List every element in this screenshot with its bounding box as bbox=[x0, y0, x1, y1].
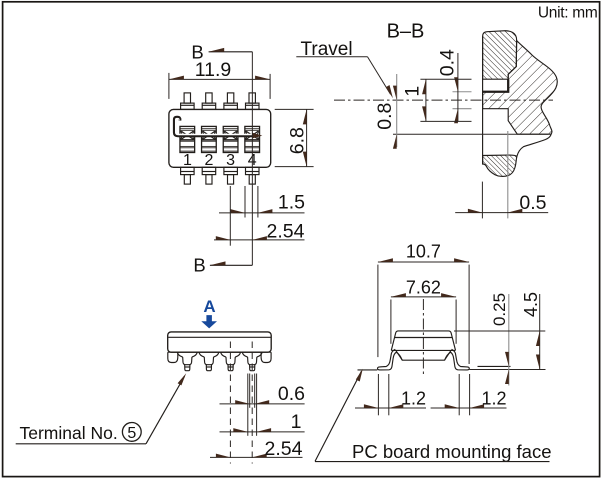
svg-text:5: 5 bbox=[127, 425, 136, 442]
terminal label leader bbox=[16, 373, 187, 444]
section arrow B bottom bbox=[193, 254, 252, 275]
svg-text:10.7: 10.7 bbox=[406, 242, 441, 262]
pin 3 top bbox=[224, 93, 238, 110]
svg-text:Unit: mm: Unit: mm bbox=[538, 4, 598, 21]
dimension 0.5 bbox=[455, 131, 548, 218]
terminal 4 centerline bbox=[251, 342, 253, 464]
dimension 1.2 right bbox=[431, 374, 507, 415]
terminal tip 2 bbox=[206, 365, 211, 371]
standoff line bbox=[478, 365, 511, 367]
svg-text:4.5: 4.5 bbox=[521, 292, 541, 317]
dimension 11.9 bbox=[169, 59, 270, 99]
switch slot 3 bbox=[223, 126, 238, 152]
step line bbox=[393, 133, 549, 135]
mounting face line left bbox=[358, 369, 378, 371]
wire arrowhead bbox=[252, 133, 262, 139]
dimension 0.8 bbox=[374, 74, 397, 149]
svg-text:Terminal No.: Terminal No. bbox=[20, 423, 118, 443]
switch slot 4 bbox=[245, 126, 260, 152]
pin 2 bottom bbox=[202, 167, 216, 184]
svg-text:1: 1 bbox=[401, 86, 423, 97]
dimension 0.6 bbox=[220, 374, 306, 408]
terminal foot section (hatched) bbox=[483, 155, 517, 176]
svg-text:3: 3 bbox=[226, 152, 235, 169]
contact strip (thick lines) bbox=[483, 79, 509, 92]
right gull-wing leg bbox=[445, 349, 470, 370]
svg-text:2.54: 2.54 bbox=[267, 220, 305, 242]
centerline bbox=[334, 99, 553, 101]
dimension 0.4 bbox=[436, 49, 471, 123]
svg-text:0.4: 0.4 bbox=[436, 49, 458, 76]
pin 1 top bbox=[181, 93, 195, 110]
dimension 1 front bbox=[220, 374, 305, 436]
terminal tip 1 bbox=[185, 365, 190, 371]
view arrow A bbox=[201, 315, 217, 328]
terminal 3 centerline bbox=[229, 342, 231, 464]
pin 4 top bbox=[246, 93, 260, 110]
dimension 1.5 bbox=[219, 186, 305, 218]
left leg inner curve bbox=[396, 352, 402, 360]
svg-text:1: 1 bbox=[291, 411, 302, 433]
mounting face line right bbox=[469, 369, 545, 371]
pin 4 bottom bbox=[246, 167, 260, 184]
dimension 0.25 bbox=[490, 293, 509, 386]
svg-text:11.9: 11.9 bbox=[195, 59, 232, 81]
svg-text:B–B: B–B bbox=[387, 21, 425, 43]
dimension 1.2 left bbox=[355, 374, 426, 415]
svg-text:B: B bbox=[193, 254, 205, 275]
svg-text:1.2: 1.2 bbox=[481, 388, 506, 408]
end body lip line bbox=[395, 337, 452, 339]
centerline vertical bbox=[422, 299, 424, 376]
skirt right block bbox=[261, 352, 271, 362]
svg-text:A: A bbox=[203, 297, 215, 316]
svg-text:7.62: 7.62 bbox=[406, 278, 441, 298]
left gull-wing leg bbox=[378, 349, 397, 370]
terminal cup 1 bbox=[177, 352, 197, 364]
svg-text:1.5: 1.5 bbox=[278, 191, 305, 213]
section arrow B top bbox=[191, 42, 252, 63]
pin 2 top bbox=[202, 93, 216, 110]
terminal cup 4 bbox=[242, 352, 262, 364]
svg-text:0.5: 0.5 bbox=[519, 192, 546, 214]
terminal cup 3 bbox=[221, 352, 241, 364]
section left edge bbox=[482, 36, 484, 164]
svg-text:0.25: 0.25 bbox=[490, 293, 509, 326]
dimension 4.5 bbox=[454, 292, 545, 370]
travel label bbox=[296, 39, 393, 98]
terminal tip 4 bbox=[250, 365, 255, 371]
pin 1 bottom bbox=[181, 167, 195, 184]
dimension 7.62 bbox=[391, 278, 456, 344]
svg-text:6.8: 6.8 bbox=[287, 127, 309, 154]
dimension 2.54 front bbox=[210, 438, 303, 460]
end body seam bbox=[391, 349, 455, 351]
switch body (top view) bbox=[169, 109, 271, 167]
switch slot 1 bbox=[180, 126, 195, 152]
terminal tip 3 bbox=[228, 365, 233, 371]
svg-text:PC board mounting face: PC board mounting face bbox=[352, 441, 552, 462]
front body bottom edge bbox=[168, 351, 272, 353]
switch slot 2 bbox=[202, 126, 217, 152]
svg-text:1: 1 bbox=[183, 152, 192, 169]
svg-text:1.2: 1.2 bbox=[401, 388, 426, 408]
end body lower bbox=[396, 350, 451, 360]
dimension 2.54 top bbox=[214, 186, 305, 246]
front body bbox=[168, 332, 272, 352]
section line B-B bbox=[251, 52, 253, 265]
svg-text:2.54: 2.54 bbox=[265, 438, 303, 460]
front body lip line bbox=[168, 336, 271, 338]
dimension 10.7 bbox=[378, 242, 469, 364]
break line below step bbox=[517, 134, 551, 156]
slide wire with hook bbox=[175, 117, 256, 135]
end body upper bbox=[391, 331, 455, 350]
knob section (hatched) bbox=[483, 31, 517, 79]
dimension 6.8 bbox=[275, 109, 314, 166]
skirt left block bbox=[168, 352, 178, 362]
pin 3 bottom bbox=[224, 167, 238, 184]
terminal cup 2 bbox=[199, 352, 219, 364]
svg-text:2: 2 bbox=[205, 152, 214, 169]
housing section (hatched) bbox=[483, 41, 558, 135]
mounting face label bbox=[315, 369, 552, 462]
dimension 1 travel bbox=[401, 79, 471, 121]
svg-text:0.8: 0.8 bbox=[374, 103, 396, 130]
svg-text:0.6: 0.6 bbox=[278, 383, 305, 405]
